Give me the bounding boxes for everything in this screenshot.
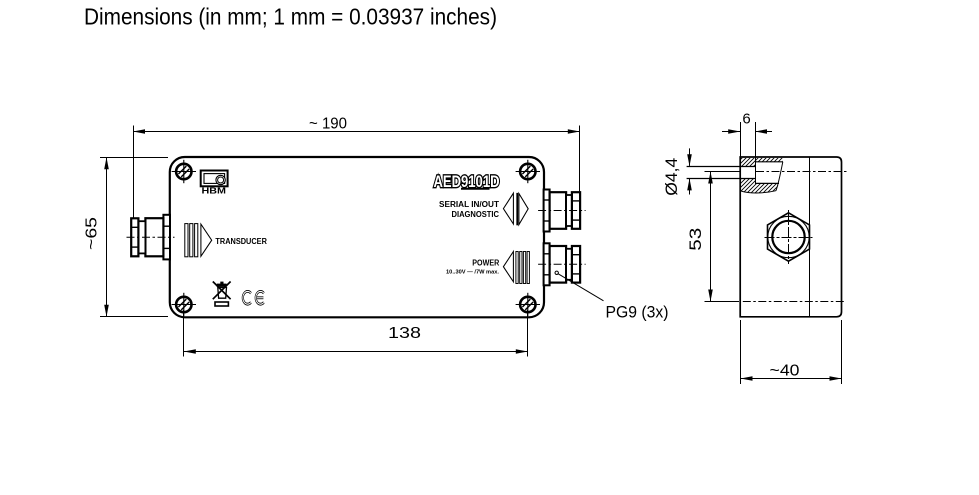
WEEE symbol xyxy=(213,282,231,307)
PG9 leader line xyxy=(558,274,603,301)
svg-text:10..30V — /7W max.: 10..30V — /7W max. xyxy=(446,270,499,276)
screw top-left xyxy=(172,160,196,183)
power symbol xyxy=(503,252,529,284)
dim ~190 arrow left xyxy=(133,129,145,134)
svg-text:6: 6 xyxy=(742,110,750,127)
pocket top edge xyxy=(755,161,783,163)
dim 6 line right tail xyxy=(755,131,772,133)
dim 138 extension line left xyxy=(183,310,185,357)
right connector power xyxy=(538,243,586,285)
transducer symbol xyxy=(185,224,267,257)
dim 6 arrow left xyxy=(728,129,740,134)
screw top-right xyxy=(516,160,540,183)
side view outline xyxy=(740,157,841,317)
dim 4.4 arrow top xyxy=(689,148,691,166)
svg-text:~65: ~65 xyxy=(84,217,101,250)
svg-text:Dimensions (in mm; 1 mm = 0.03: Dimensions (in mm; 1 mm = 0.03937 inches… xyxy=(84,4,497,30)
right connector serial xyxy=(538,190,586,232)
svg-text:POWER: POWER xyxy=(472,259,499,268)
slot bottom line xyxy=(687,178,755,180)
svg-text:SERIAL IN/OUT: SERIAL IN/OUT xyxy=(439,200,499,209)
HBM logo xyxy=(201,171,228,196)
dim ~40 extension line left xyxy=(740,320,742,384)
serial in/out diagnostic label xyxy=(439,200,499,219)
PG9 leader circle xyxy=(555,271,558,274)
dim ~190 extension line right xyxy=(579,126,581,192)
dim 53 arrow bottom xyxy=(708,290,713,302)
hex nut bore circle xyxy=(772,221,804,253)
screw bottom-right xyxy=(516,293,540,316)
svg-text:DIAGNOSTIC: DIAGNOSTIC xyxy=(452,210,500,219)
dim 4.4 arrow bottom xyxy=(689,178,691,194)
dim ~40 line xyxy=(741,378,842,380)
pocket right curve xyxy=(776,162,783,191)
dim 53 extension line bottom xyxy=(705,301,740,303)
svg-text:HBM: HBM xyxy=(202,185,227,195)
svg-text:~ 190: ~ 190 xyxy=(309,115,347,132)
slot top line xyxy=(687,166,755,168)
dim ~65 extension line bottom xyxy=(100,316,168,318)
bottom dash-dot line xyxy=(743,301,847,303)
lower hatch bottom curve xyxy=(741,191,776,193)
section hatch upper strip xyxy=(755,158,783,162)
AED9101D label xyxy=(434,172,500,191)
dim ~190 line xyxy=(134,131,580,133)
section hatch lower blob xyxy=(741,178,779,193)
screw bottom-left xyxy=(172,293,196,316)
dim 53 arrow top xyxy=(708,172,713,184)
svg-text:PG9 (3x): PG9 (3x) xyxy=(606,303,669,321)
serial in/out symbol xyxy=(503,193,528,225)
side view fold line xyxy=(809,157,811,317)
dim ~65 arrow top xyxy=(104,157,109,169)
hex nut crosshair xyxy=(765,237,813,239)
dim ~40 extension line right xyxy=(841,320,843,384)
dim 6 arrow right xyxy=(755,129,767,134)
dim ~190 arrow right xyxy=(568,129,580,134)
power label xyxy=(446,259,499,276)
hex nut hexagon xyxy=(768,213,810,261)
dim ~40 arrow left xyxy=(741,376,753,381)
dim ~65 extension line top xyxy=(100,157,168,159)
dim ~65 arrow bottom xyxy=(104,305,109,317)
dim 138 extension line right xyxy=(527,310,529,357)
left connector (cable gland) xyxy=(127,215,175,260)
dim ~40 arrow right xyxy=(830,376,842,381)
svg-text:138: 138 xyxy=(388,325,421,342)
dim 138 line xyxy=(184,351,528,353)
dim ~65 line xyxy=(106,158,108,317)
hex nut chamfer circle xyxy=(768,216,809,257)
pocket bottom edge xyxy=(755,182,779,184)
section hatch upper block xyxy=(741,158,755,167)
dim ~190 extension line left xyxy=(133,126,135,219)
front view housing xyxy=(170,157,544,317)
dim 53 line xyxy=(710,172,712,302)
CE mark xyxy=(243,291,264,304)
dim 138 arrow right xyxy=(516,349,528,354)
dim 6 extension line right xyxy=(755,122,757,183)
dim 138 arrow left xyxy=(184,349,196,354)
svg-text:53: 53 xyxy=(686,228,705,251)
dim 6 line left tail xyxy=(722,131,740,133)
svg-text:Ø4,4: Ø4,4 xyxy=(662,158,681,196)
svg-text:~40: ~40 xyxy=(770,363,800,380)
dim 53 extension line top xyxy=(705,171,741,173)
hole centerline xyxy=(756,171,849,173)
dim 6 extension line left xyxy=(740,122,742,157)
svg-text:TRANSDUCER: TRANSDUCER xyxy=(215,237,267,246)
